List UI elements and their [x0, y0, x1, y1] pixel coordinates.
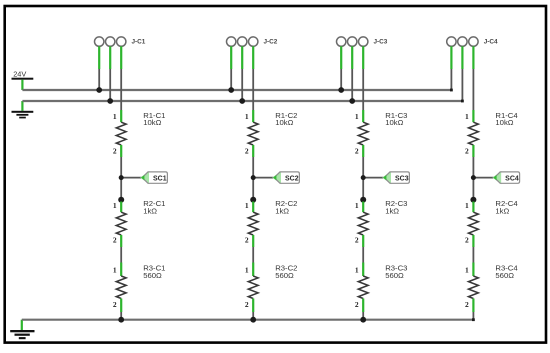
wire J-C1 pin1 to 24V net [98, 46, 100, 90]
junction SC3 tee [361, 175, 366, 180]
junction above R2-C3 [360, 197, 366, 203]
junction SC1 tee [119, 175, 124, 180]
ground (top left) [12, 101, 34, 118]
resistor R3-C1 [116, 263, 126, 313]
wire J-C3 pin2 to ground net [351, 46, 353, 101]
junction R3-C3 / bottom net [360, 317, 366, 323]
label R3-C2 560Ω [275, 264, 297, 280]
wire R1-C3 to R2-C3 [362, 157, 364, 202]
svg-text:2: 2 [355, 147, 359, 156]
wire R3-C2 to bottom ground net [252, 312, 254, 320]
svg-text:560Ω: 560Ω [495, 271, 514, 280]
label R3-C3 560Ω [385, 264, 407, 280]
label R3-C4 560Ω [495, 264, 518, 280]
label R2-C3 1kΩ [385, 199, 407, 215]
junction J-C3 pin2 / ground net [349, 98, 355, 104]
wire J-C1 pin3 down to R1-C1 [120, 46, 122, 110]
wire J-C3 pin1 to 24V net [340, 46, 342, 90]
junction J-C2 pin1 / 24V net [228, 87, 234, 93]
svg-text:560Ω: 560Ω [143, 271, 162, 280]
svg-text:10kΩ: 10kΩ [495, 118, 513, 127]
wire R2-C3 to R3-C3 [362, 247, 364, 263]
resistor R3-C3 [358, 263, 368, 313]
wire J-C4 pin2 to ground net [461, 46, 463, 101]
corner R3-C4 / bottom net [472, 318, 475, 321]
wire R2-C2 to R3-C2 [252, 247, 254, 263]
wire J-C2 pin2 to ground net [241, 46, 243, 101]
svg-text:2: 2 [465, 300, 469, 309]
wire R1-C1 to R2-C1 [120, 157, 122, 202]
wire R2-C1 to R3-C1 [120, 247, 122, 263]
wire J-C2 pin3 down to R1-C2 [252, 46, 254, 110]
wire to flag SC1 [121, 177, 142, 179]
on-page connector flag SC2 [272, 171, 299, 184]
svg-text:2: 2 [245, 235, 249, 244]
svg-text:2: 2 [113, 300, 117, 309]
connector J-C4 [447, 37, 478, 46]
svg-text:SC3: SC3 [395, 175, 409, 182]
on-page connector flag SC1 [140, 171, 167, 184]
corner J-C4 pin2 / ground net [461, 100, 464, 103]
junction SC4 tee [471, 175, 476, 180]
svg-text:1: 1 [465, 112, 469, 121]
label R1-C1 10kΩ [143, 111, 165, 127]
junction above R2-C2 [250, 197, 256, 203]
svg-text:1kΩ: 1kΩ [275, 207, 289, 216]
connector J-C1 [95, 37, 126, 46]
wire R2-C4 to R3-C4 [472, 247, 474, 263]
resistor R2-C1 [116, 202, 126, 248]
svg-text:10kΩ: 10kΩ [385, 118, 403, 127]
svg-text:2: 2 [245, 300, 249, 309]
svg-text:1: 1 [355, 201, 359, 210]
wire R3-C4 to bottom ground net [472, 312, 474, 320]
svg-text:560Ω: 560Ω [275, 271, 294, 280]
label R1-C4 10kΩ [495, 111, 518, 127]
wire J-C2 pin1 to 24V net [230, 46, 232, 90]
corner J-C4 pin1 / 24V net [450, 89, 453, 92]
resistor R1-C1 [116, 110, 126, 157]
svg-text:1kΩ: 1kΩ [385, 207, 399, 216]
junction R3-C1 / bottom net [118, 317, 124, 323]
on-page connector flag SC3 [382, 171, 409, 184]
svg-text:1: 1 [465, 265, 469, 274]
svg-text:1: 1 [113, 112, 117, 121]
wire to flag SC4 [473, 177, 494, 179]
svg-text:2: 2 [245, 147, 249, 156]
resistor R3-C2 [248, 263, 258, 313]
svg-text:J-C4: J-C4 [484, 39, 498, 46]
wire J-C1 pin2 to ground net [109, 46, 111, 101]
label R3-C1 560Ω [143, 264, 165, 280]
svg-text:SC4: SC4 [505, 175, 519, 182]
junction J-C3 pin1 / 24V net [338, 87, 344, 93]
wire R1-C4 to R2-C4 [472, 157, 474, 202]
svg-text:2: 2 [355, 300, 359, 309]
junction J-C1 pin1 / 24V net [96, 87, 102, 93]
svg-text:560Ω: 560Ω [385, 271, 404, 280]
resistor R1-C2 [248, 110, 258, 157]
junction J-C1 pin2 / ground net [107, 98, 113, 104]
svg-text:1: 1 [245, 112, 249, 121]
svg-text:1: 1 [113, 265, 117, 274]
wire to flag SC2 [253, 177, 274, 179]
connector J-C3 [337, 37, 368, 46]
wire J-C4 pin1 to 24V net [450, 46, 452, 90]
resistor R1-C4 [469, 110, 479, 157]
label R2-C4 1kΩ [495, 199, 518, 215]
svg-text:1: 1 [355, 112, 359, 121]
junction R3-C2 / bottom net [250, 317, 256, 323]
resistor R2-C3 [358, 202, 368, 248]
svg-text:24V: 24V [13, 70, 26, 79]
wire R3-C3 to bottom ground net [362, 312, 364, 320]
svg-text:10kΩ: 10kΩ [143, 118, 161, 127]
wire to flag SC3 [363, 177, 384, 179]
svg-text:10kΩ: 10kΩ [275, 118, 293, 127]
wire net 24V (top horizontal) [22, 89, 451, 91]
svg-text:1: 1 [465, 201, 469, 210]
resistor R1-C3 [358, 110, 368, 157]
svg-text:1kΩ: 1kΩ [143, 207, 157, 216]
junction above R2-C1 [118, 197, 124, 203]
power supply 24V [12, 70, 34, 90]
junction SC2 tee [251, 175, 256, 180]
svg-text:2: 2 [465, 147, 469, 156]
wire net ground (bottom horizontal) [22, 319, 474, 321]
resistor R3-C4 [469, 263, 479, 313]
svg-text:1: 1 [355, 265, 359, 274]
on-page connector flag SC4 [492, 171, 519, 184]
label R1-C2 10kΩ [275, 111, 297, 127]
svg-text:J-C2: J-C2 [264, 39, 278, 46]
wire R3-C1 to bottom ground net [120, 312, 122, 320]
wire R1-C2 to R2-C2 [252, 157, 254, 202]
ground (bottom left) [10, 320, 34, 340]
wire net ground (second horizontal) [22, 100, 462, 102]
svg-text:SC1: SC1 [153, 175, 167, 182]
label R2-C2 1kΩ [275, 199, 297, 215]
svg-text:2: 2 [113, 147, 117, 156]
label R1-C3 10kΩ [385, 111, 407, 127]
connector J-C2 [227, 37, 258, 46]
resistor R2-C4 [469, 202, 479, 248]
label R2-C1 1kΩ [143, 199, 165, 215]
svg-text:1kΩ: 1kΩ [495, 207, 509, 216]
svg-text:1: 1 [113, 201, 117, 210]
svg-text:2: 2 [355, 235, 359, 244]
svg-text:2: 2 [113, 235, 117, 244]
wire J-C4 pin3 down to R1-C4 [472, 46, 474, 110]
svg-text:1: 1 [245, 265, 249, 274]
svg-text:1: 1 [245, 201, 249, 210]
wire J-C3 pin3 down to R1-C3 [362, 46, 364, 110]
resistor R2-C2 [248, 202, 258, 248]
svg-text:J-C1: J-C1 [132, 39, 146, 46]
svg-text:2: 2 [465, 235, 469, 244]
svg-text:J-C3: J-C3 [374, 39, 388, 46]
junction J-C2 pin2 / ground net [239, 98, 245, 104]
junction above R2-C4 [470, 197, 476, 203]
svg-text:SC2: SC2 [285, 175, 299, 182]
